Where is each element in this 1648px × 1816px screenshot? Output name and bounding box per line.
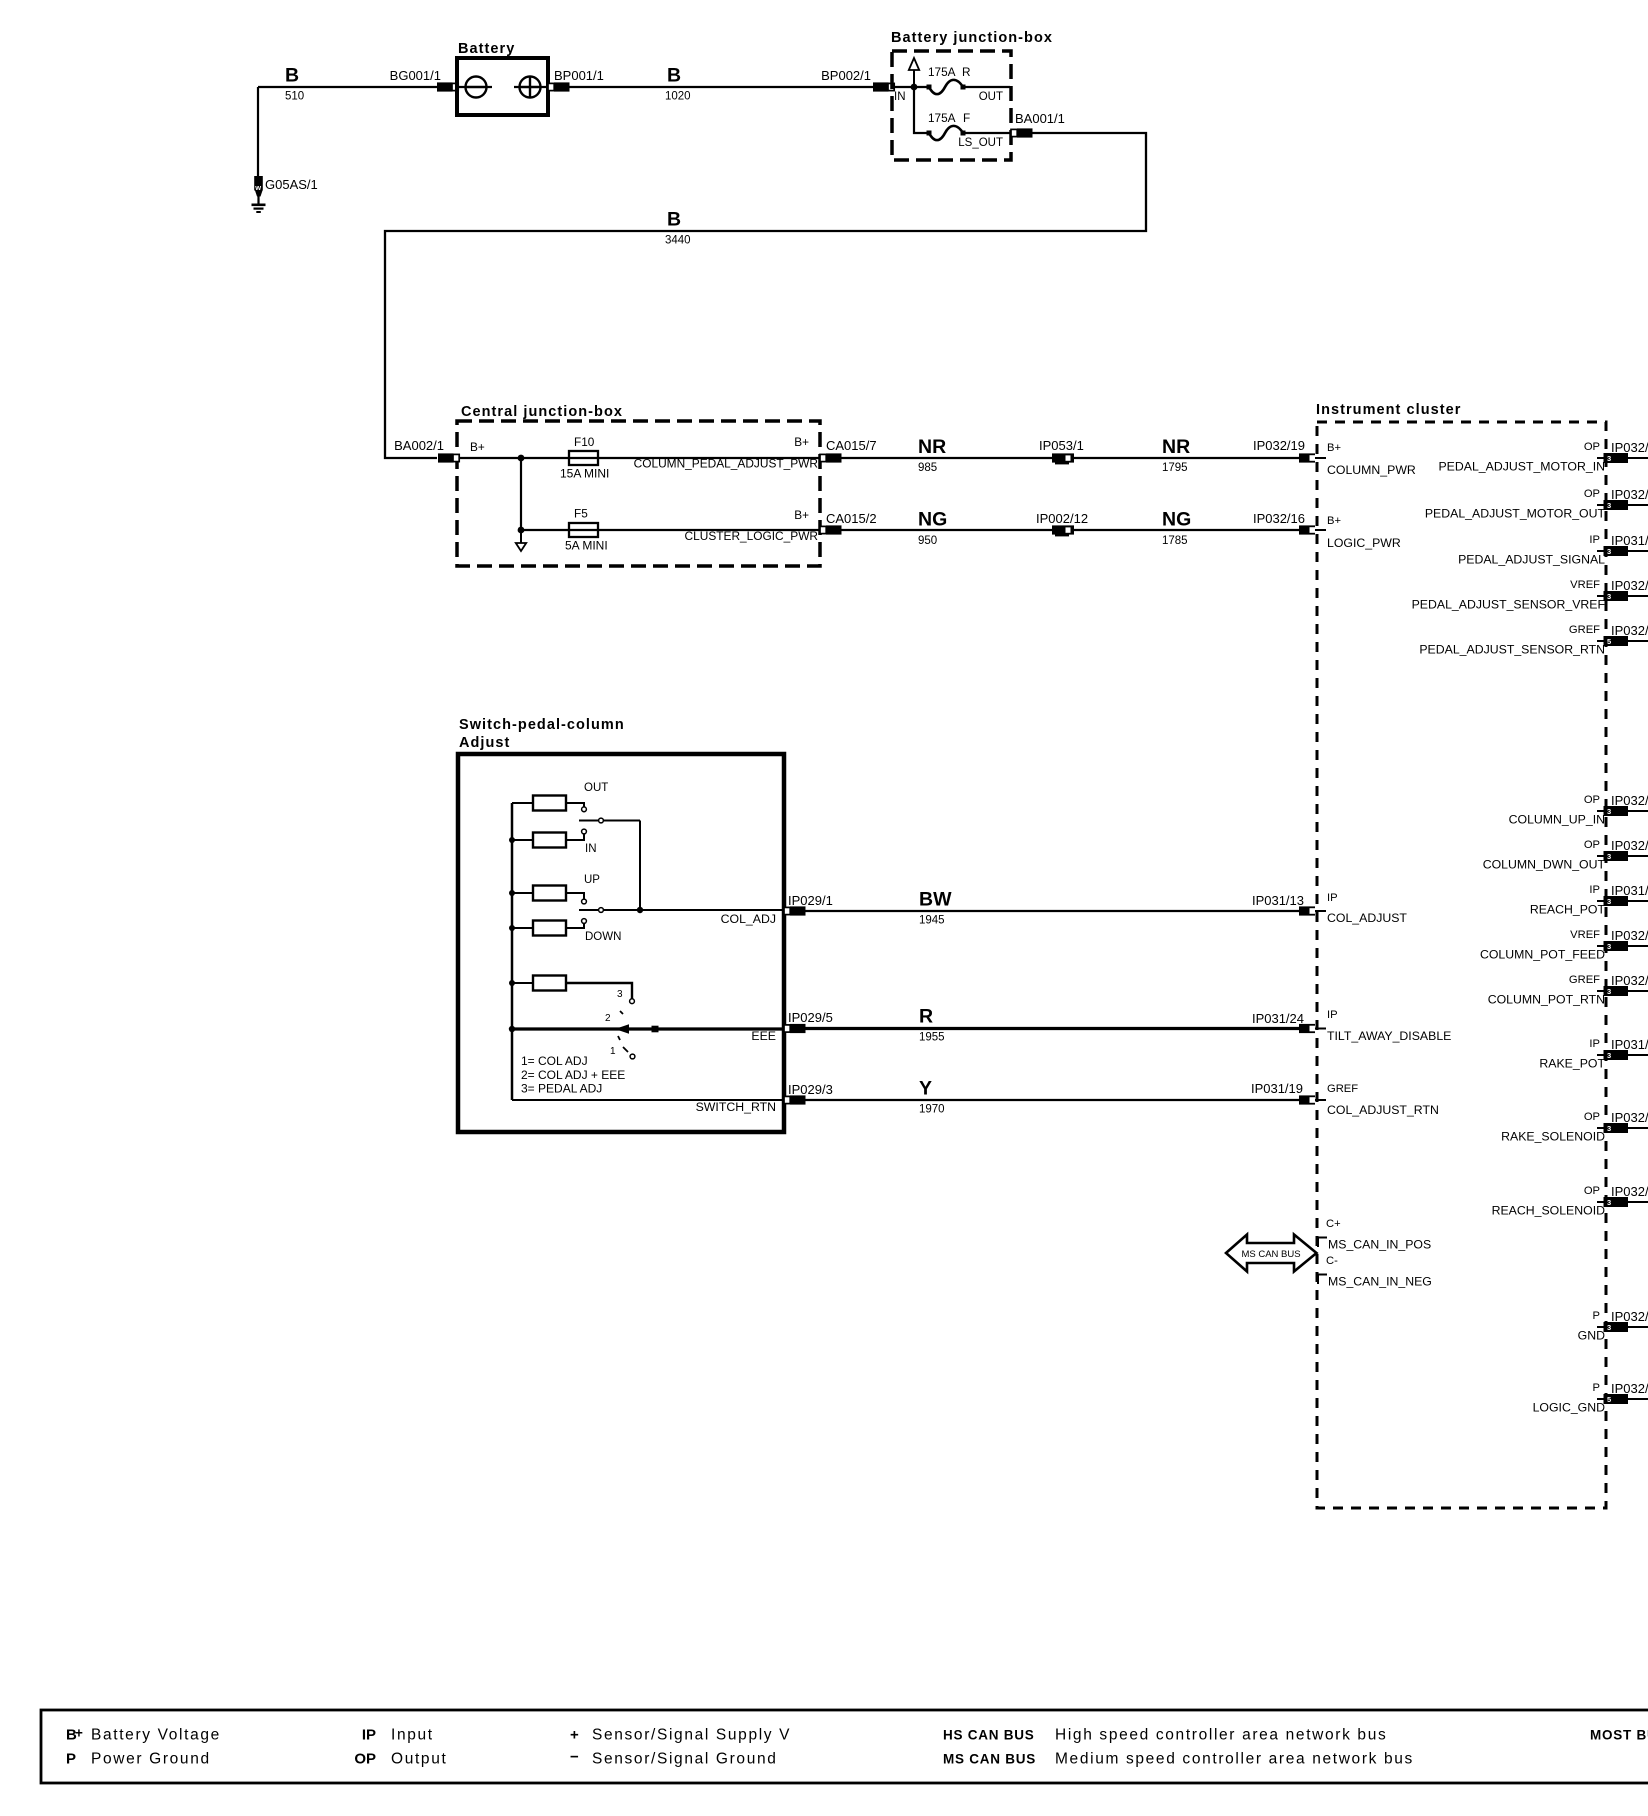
svg-text:1795: 1795 [1162, 462, 1188, 474]
svg-text:−: − [570, 1749, 579, 1766]
svg-text:P: P [1593, 1310, 1600, 1322]
pin P GND [1578, 1310, 1605, 1343]
svg-text:Medium speed controller area n: Medium speed controller area network bus [1055, 1751, 1414, 1768]
svg-text:OP: OP [354, 1751, 376, 1768]
connector CA015/7 [820, 438, 877, 463]
battery [457, 41, 548, 115]
svg-text:5: 5 [1607, 1395, 1611, 1404]
svg-text:F10: F10 [574, 435, 595, 449]
switch-pedal-column adjust box [458, 717, 784, 1132]
central junction-box [457, 404, 820, 566]
svg-text:w: w [254, 183, 261, 192]
pin IP COL_ADJUST [1327, 892, 1407, 925]
svg-text:OP: OP [1584, 441, 1600, 453]
svg-text:SWITCH_RTN: SWITCH_RTN [696, 1100, 776, 1114]
pin GREF COLUMN_POT_RTN [1488, 974, 1605, 1007]
svg-text:IP: IP [1327, 892, 1338, 904]
wire NG 950 [841, 509, 1300, 548]
resistor IN [509, 829, 597, 855]
svg-text:Input: Input [391, 1727, 434, 1744]
svg-text:B: B [667, 65, 681, 87]
svg-text:VREF: VREF [1570, 579, 1600, 591]
resistor UP [509, 874, 600, 904]
svg-text:High speed controller area net: High speed controller area network bus [1055, 1727, 1387, 1744]
svg-text:IP032/: IP032/ [1611, 793, 1648, 808]
svg-text:3: 3 [1607, 852, 1611, 861]
svg-text:175A: 175A [928, 65, 956, 79]
svg-text:IP032/16: IP032/16 [1253, 511, 1305, 526]
svg-text:OP: OP [1584, 1185, 1600, 1197]
svg-text:IP: IP [362, 1727, 376, 1744]
battery junction-box [891, 30, 1053, 160]
connector IP032/16 [1299, 525, 1326, 534]
svg-text:GREF: GREF [1569, 624, 1600, 636]
svg-text:3: 3 [1607, 807, 1611, 816]
svg-text:F5: F5 [574, 507, 588, 521]
pin OP REACH_SOLENOID [1492, 1185, 1606, 1218]
resistor OUT [512, 782, 608, 812]
connector IP032 stub (REACH_SOLENOID) [1597, 1184, 1648, 1207]
MS CAN BUS arrow [1226, 1235, 1317, 1272]
svg-text:Adjust: Adjust [459, 735, 510, 751]
pin VREF COLUMN_POT_FEED [1480, 929, 1605, 962]
svg-text:GREF: GREF [1327, 1083, 1358, 1095]
svg-text:175A: 175A [928, 111, 956, 125]
svg-text:PEDAL_ADJUST_SENSOR_VREF: PEDAL_ADJUST_SENSOR_VREF [1412, 598, 1606, 612]
svg-text:3: 3 [1607, 501, 1611, 510]
svg-text:3: 3 [1607, 547, 1611, 556]
svg-text:1955: 1955 [919, 1032, 945, 1044]
svg-text:1= COL ADJ: 1= COL ADJ [521, 1054, 588, 1068]
instrument cluster [1316, 402, 1606, 1508]
svg-text:MS CAN BUS: MS CAN BUS [1241, 1249, 1300, 1260]
svg-text:PEDAL_ADJUST_MOTOR_OUT: PEDAL_ADJUST_MOTOR_OUT [1425, 507, 1606, 521]
svg-text:IP031/19: IP031/19 [1251, 1081, 1303, 1096]
svg-text:3: 3 [1607, 942, 1611, 951]
svg-text:Sensor/Signal Supply V: Sensor/Signal Supply V [592, 1727, 791, 1744]
svg-text:OP: OP [1584, 1111, 1600, 1123]
svg-text:3: 3 [1607, 454, 1611, 463]
svg-text:IP032/: IP032/ [1611, 1309, 1648, 1324]
svg-text:+: + [570, 1727, 579, 1744]
svg-text:MOST BUS: MOST BUS [1590, 1728, 1648, 1743]
pin C- MS_CAN_IN_NEG [1318, 1255, 1432, 1289]
wire R 1955 [805, 1006, 1304, 1044]
svg-text:CLUSTER_LOGIC_PWR: CLUSTER_LOGIC_PWR [685, 529, 819, 543]
svg-text:3440: 3440 [665, 235, 691, 247]
wire BW 1945 [805, 889, 1304, 927]
svg-text:Switch-pedal-column: Switch-pedal-column [459, 717, 625, 733]
svg-text:COLUMN_PWR: COLUMN_PWR [1327, 463, 1416, 477]
svg-text:5: 5 [1607, 637, 1611, 646]
svg-text:IN: IN [585, 843, 597, 855]
fuse F10 15A MINI [560, 435, 820, 481]
svg-text:B+: B+ [794, 508, 809, 522]
svg-text:COLUMN_PEDAL_ADJUST_PWR: COLUMN_PEDAL_ADJUST_PWR [634, 457, 819, 471]
svg-text:5A MINI: 5A MINI [565, 539, 608, 553]
svg-text:C-: C- [1326, 1255, 1338, 1267]
pin OP COLUMN_DWN_OUT [1483, 839, 1606, 872]
svg-text:2= COL ADJ + EEE: 2= COL ADJ + EEE [521, 1068, 625, 1082]
connector IP032 stub (COLUMN_UP_IN) [1597, 793, 1648, 816]
svg-text:OP: OP [1584, 488, 1600, 500]
connector IP032 stub (COLUMN_DWN_OUT) [1597, 838, 1648, 861]
svg-text:IP032/: IP032/ [1611, 623, 1648, 638]
svg-text:B+: B+ [1327, 442, 1341, 454]
connector IP032 stub (LOGIC_GND) [1597, 1381, 1648, 1404]
pin IP REACH_POT [1530, 884, 1606, 917]
connector IP031/24 [1299, 1024, 1326, 1033]
svg-text:HS CAN BUS: HS CAN BUS [943, 1728, 1035, 1743]
svg-text:+: + [75, 1726, 84, 1741]
connector BA001/1 [1011, 111, 1065, 138]
svg-text:1785: 1785 [1162, 535, 1188, 547]
svg-text:2: 2 [605, 1013, 611, 1024]
svg-text:OUT: OUT [584, 782, 608, 794]
wire B 1020 (battery to battery junction-box) [569, 65, 873, 103]
svg-text:LS_OUT: LS_OUT [958, 137, 1003, 149]
legend box [41, 1710, 1648, 1783]
svg-text:B+: B+ [470, 440, 485, 454]
svg-text:NR: NR [1162, 436, 1190, 458]
connector BP002/1 [821, 68, 894, 92]
connector IP031/13 [1299, 906, 1326, 915]
svg-text:IP032/: IP032/ [1611, 578, 1648, 593]
connector CA015/2 [820, 511, 877, 535]
svg-text:GND: GND [1578, 1329, 1605, 1343]
svg-text:VREF: VREF [1570, 929, 1600, 941]
svg-text:1: 1 [610, 1046, 616, 1057]
ground G05AS/1 [252, 87, 318, 212]
pin IP PEDAL_ADJUST_SIGNAL [1458, 534, 1605, 567]
connector IP002/12 [1036, 511, 1088, 536]
svg-text:B+: B+ [794, 435, 809, 449]
switch arm UP/DOWN and COL_ADJ wire [579, 907, 784, 926]
connector IP032 stub (RAKE_SOLENOID) [1597, 1110, 1648, 1133]
svg-text:REACH_POT: REACH_POT [1530, 903, 1606, 917]
svg-text:B: B [667, 209, 681, 231]
svg-text:3: 3 [617, 989, 623, 1000]
node IN (BJB) [894, 84, 929, 103]
connector IP031/19 [1299, 1095, 1326, 1104]
resistor pedal-adjust [509, 976, 634, 1004]
svg-text:B+: B+ [1327, 515, 1341, 527]
svg-text:R: R [919, 1006, 933, 1028]
connector IP032 stub (GND) [1597, 1309, 1648, 1332]
wire OUT (BJB) [963, 87, 1010, 103]
svg-text:BA002/1: BA002/1 [394, 438, 444, 453]
connector BA002/1 [394, 438, 459, 463]
pin P LOGIC_GND [1533, 1382, 1606, 1415]
svg-text:COLUMN_POT_RTN: COLUMN_POT_RTN [1488, 993, 1605, 1007]
connector IP032 stub (PEDAL_ADJUST_MOTOR_OUT) [1597, 487, 1648, 510]
svg-text:RAKE_SOLENOID: RAKE_SOLENOID [1501, 1130, 1605, 1144]
svg-text:OUT: OUT [979, 91, 1003, 103]
svg-text:IP031/: IP031/ [1611, 533, 1648, 548]
svg-text:3: 3 [1607, 1051, 1611, 1060]
svg-text:BG001/1: BG001/1 [390, 68, 441, 83]
sensor ground arrow (CJB) [516, 530, 526, 551]
svg-text:1945: 1945 [919, 915, 945, 927]
svg-text:BA001/1: BA001/1 [1015, 111, 1065, 126]
svg-text:Sensor/Signal Ground: Sensor/Signal Ground [592, 1751, 778, 1768]
svg-text:MS CAN BUS: MS CAN BUS [943, 1752, 1036, 1767]
svg-text:IP032/: IP032/ [1611, 1110, 1648, 1125]
svg-text:PEDAL_ADJUST_SIGNAL: PEDAL_ADJUST_SIGNAL [1458, 553, 1605, 567]
connector IP032 stub (PEDAL_ADJUST_SENSOR_RTN) [1597, 623, 1648, 646]
svg-text:IP032/: IP032/ [1611, 1184, 1648, 1199]
fuse 175A R [927, 65, 971, 94]
svg-text:CA015/7: CA015/7 [826, 438, 877, 453]
svg-text:BP001/1: BP001/1 [554, 68, 604, 83]
fuse F5 5A MINI [521, 507, 820, 553]
svg-text:3: 3 [1607, 897, 1611, 906]
svg-text:Battery: Battery [458, 41, 515, 57]
svg-text:EEE: EEE [751, 1029, 776, 1043]
pin OP COLUMN_UP_IN [1509, 794, 1605, 827]
wire NG 1785 [1162, 509, 1305, 548]
connector IP029/5 [784, 1010, 833, 1033]
svg-text:3: 3 [1607, 987, 1611, 996]
svg-text:B: B [285, 65, 299, 87]
switch arm OUT/IN [579, 818, 640, 910]
svg-text:IP: IP [1589, 884, 1600, 896]
wire SWITCH_RTN [512, 1100, 784, 1114]
resistor DOWN [509, 919, 621, 943]
svg-text:IP031/: IP031/ [1611, 883, 1648, 898]
svg-text:R: R [962, 65, 971, 79]
svg-text:IP029/1: IP029/1 [788, 893, 833, 908]
pin OP PEDAL_ADJUST_MOTOR_IN [1438, 441, 1605, 474]
pin GREF COL_ADJUST_RTN [1327, 1083, 1439, 1117]
wire EEE [509, 1026, 784, 1043]
svg-text:OP: OP [1584, 794, 1600, 806]
wire B 510 (ground to battery) [258, 65, 437, 103]
svg-text:COL_ADJUST_RTN: COL_ADJUST_RTN [1327, 1103, 1439, 1117]
svg-text:Battery junction-box: Battery junction-box [891, 30, 1053, 46]
svg-text:COL_ADJ: COL_ADJ [721, 912, 776, 926]
svg-text:COLUMN_DWN_OUT: COLUMN_DWN_OUT [1483, 858, 1606, 872]
svg-text:DOWN: DOWN [585, 931, 621, 943]
connector IP032 stub (COLUMN_POT_FEED) [1597, 928, 1648, 951]
connector IP031 stub (PEDAL_ADJUST_SIGNAL) [1597, 533, 1648, 556]
connector IP032 stub (PEDAL_ADJUST_MOTOR_IN) [1597, 440, 1648, 463]
power feed arrow (BJB) [909, 58, 919, 87]
svg-text:GREF: GREF [1569, 974, 1600, 986]
svg-text:BW: BW [919, 889, 952, 911]
svg-text:IP032/19: IP032/19 [1253, 438, 1305, 453]
pin VREF PEDAL_ADJUST_SENSOR_VREF [1412, 579, 1606, 612]
connector IP029/1 [784, 893, 833, 916]
wire NR 985 [841, 436, 1300, 474]
svg-text:NR: NR [918, 436, 946, 458]
svg-text:COLUMN_UP_IN: COLUMN_UP_IN [1509, 813, 1605, 827]
svg-text:CA015/2: CA015/2 [826, 511, 877, 526]
svg-text:15A MINI: 15A MINI [560, 467, 609, 481]
svg-text:LOGIC_GND: LOGIC_GND [1533, 1401, 1606, 1415]
connector BP001/1 [548, 68, 604, 92]
svg-text:1970: 1970 [919, 1104, 945, 1116]
svg-text:LOGIC_PWR: LOGIC_PWR [1327, 536, 1401, 550]
svg-text:TILT_AWAY_DISABLE: TILT_AWAY_DISABLE [1327, 1029, 1451, 1043]
svg-text:985: 985 [918, 462, 937, 474]
svg-text:IP031/: IP031/ [1611, 1037, 1648, 1052]
svg-text:3= PEDAL ADJ: 3= PEDAL ADJ [521, 1082, 602, 1096]
svg-text:IP: IP [1327, 1009, 1338, 1021]
fuse 175A F [927, 111, 1011, 149]
svg-text:IP031/13: IP031/13 [1252, 893, 1304, 908]
pin C+ MS_CAN_IN_POS [1318, 1218, 1431, 1252]
svg-text:RAKE_POT: RAKE_POT [1539, 1057, 1605, 1071]
svg-text:IP: IP [1589, 1038, 1600, 1050]
svg-text:P: P [66, 1751, 76, 1768]
pin OP PEDAL_ADJUST_MOTOR_OUT [1425, 488, 1606, 521]
svg-text:MS_CAN_IN_NEG: MS_CAN_IN_NEG [1328, 1275, 1432, 1289]
switch common bus [511, 803, 514, 1100]
svg-text:UP: UP [584, 874, 600, 886]
rotary switch 1-2-3 [605, 1011, 659, 1059]
wire NR 1795 [1162, 436, 1305, 474]
connector IP029/3 [784, 1082, 833, 1105]
svg-text:IP032/: IP032/ [1611, 487, 1648, 502]
svg-text:Output: Output [391, 1751, 447, 1768]
switch position legend [521, 1054, 625, 1096]
pin GREF PEDAL_ADJUST_SENSOR_RTN [1419, 624, 1605, 657]
svg-text:IP029/3: IP029/3 [788, 1082, 833, 1097]
svg-text:IP032/: IP032/ [1611, 973, 1648, 988]
legend entries [66, 1726, 1648, 1768]
svg-text:F: F [963, 111, 970, 125]
svg-text:G05AS/1: G05AS/1 [265, 177, 318, 192]
wire B 3440 (BJB to CJB) [385, 133, 1146, 458]
svg-text:PEDAL_ADJUST_MOTOR_IN: PEDAL_ADJUST_MOTOR_IN [1438, 460, 1605, 474]
pin B+ COLUMN_PWR [1327, 442, 1416, 477]
svg-text:REACH_SOLENOID: REACH_SOLENOID [1492, 1204, 1606, 1218]
svg-text:C+: C+ [1326, 1218, 1341, 1230]
svg-text:IP032/: IP032/ [1611, 440, 1648, 455]
svg-text:COL_ADJUST: COL_ADJUST [1327, 911, 1407, 925]
connector IP031 stub (RAKE_POT) [1597, 1037, 1648, 1060]
pin B+ LOGIC_PWR [1327, 515, 1401, 550]
svg-text:IP032/: IP032/ [1611, 1381, 1648, 1396]
svg-text:Power Ground: Power Ground [91, 1751, 211, 1768]
svg-text:Central junction-box: Central junction-box [461, 404, 623, 420]
svg-text:3: 3 [1607, 1124, 1611, 1133]
node branch (CJB) [518, 458, 525, 533]
connector IP032 stub (COLUMN_POT_RTN) [1597, 973, 1648, 996]
svg-text:1020: 1020 [665, 91, 691, 103]
connector IP032/19 [1299, 453, 1326, 462]
svg-text:IP: IP [1589, 534, 1600, 546]
pin IP RAKE_POT [1539, 1038, 1605, 1071]
svg-text:Y: Y [919, 1078, 932, 1100]
pin IP TILT_AWAY_DISABLE [1327, 1009, 1451, 1043]
svg-text:3: 3 [1607, 592, 1611, 601]
svg-text:Instrument cluster: Instrument cluster [1316, 402, 1461, 418]
svg-text:950: 950 [918, 535, 937, 547]
svg-text:IP053/1: IP053/1 [1039, 438, 1084, 453]
pin OP RAKE_SOLENOID [1501, 1111, 1605, 1144]
connector IP031 stub (REACH_POT) [1597, 883, 1648, 906]
wire Y 1970 [805, 1078, 1303, 1116]
connector BG001/1 [390, 68, 459, 92]
svg-text:3: 3 [1607, 1323, 1611, 1332]
svg-text:NG: NG [1162, 509, 1191, 531]
svg-text:510: 510 [285, 91, 304, 103]
svg-text:IP032/: IP032/ [1611, 838, 1648, 853]
svg-text:P: P [1593, 1382, 1600, 1394]
svg-text:Battery Voltage: Battery Voltage [91, 1727, 221, 1744]
svg-text:3: 3 [1607, 1198, 1611, 1207]
connector IP032 stub (PEDAL_ADJUST_SENSOR_VREF) [1597, 578, 1648, 601]
wire branch to fuse F [914, 87, 929, 133]
svg-text:IN: IN [894, 91, 906, 103]
svg-text:BP002/1: BP002/1 [821, 68, 871, 83]
svg-text:OP: OP [1584, 839, 1600, 851]
svg-text:IP032/: IP032/ [1611, 928, 1648, 943]
connector IP053/1 [1039, 438, 1084, 464]
svg-text:MS_CAN_IN_POS: MS_CAN_IN_POS [1328, 1238, 1431, 1252]
svg-text:COLUMN_POT_FEED: COLUMN_POT_FEED [1480, 948, 1605, 962]
wire B+ rail (CJB) [459, 440, 569, 461]
svg-text:NG: NG [918, 509, 947, 531]
svg-text:IP002/12: IP002/12 [1036, 511, 1088, 526]
svg-text:IP031/24: IP031/24 [1252, 1011, 1304, 1026]
svg-text:IP029/5: IP029/5 [788, 1010, 833, 1025]
svg-text:PEDAL_ADJUST_SENSOR_RTN: PEDAL_ADJUST_SENSOR_RTN [1419, 643, 1605, 657]
